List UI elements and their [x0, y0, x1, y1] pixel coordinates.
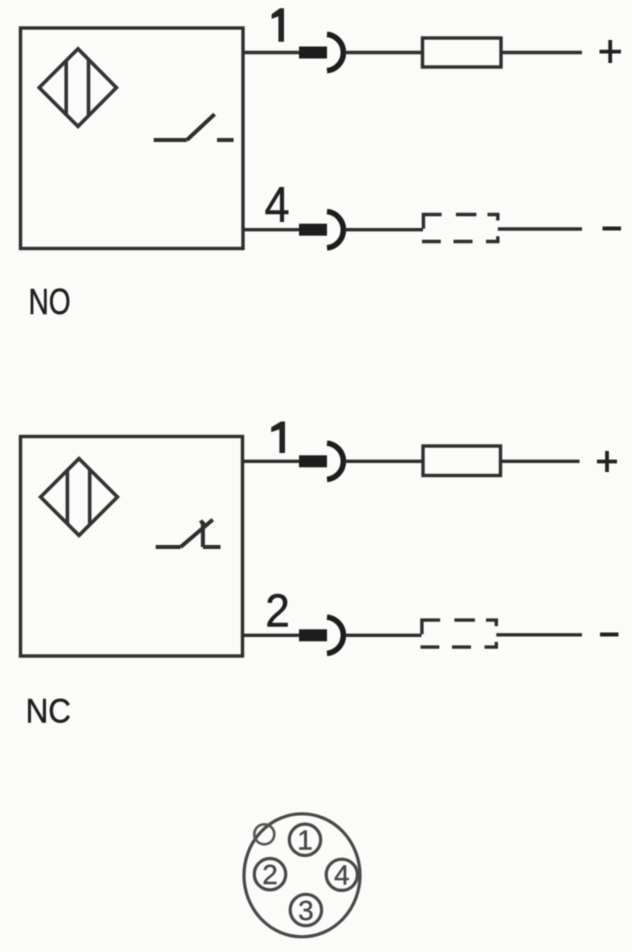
wire box to plug (NC pin1) [243, 460, 302, 463]
keyway notch circle [254, 824, 274, 844]
proximity sensor symbol (diamond, NO box) [39, 49, 116, 127]
connector pin plug (NC pin2) [299, 629, 327, 641]
svg-text:NC: NC [26, 691, 71, 730]
pin 2 circle [254, 859, 285, 890]
pin label 2 (NC) [265, 584, 290, 636]
pin label 4 (NO) [264, 178, 289, 234]
load resistor box (NC pin1) [423, 446, 501, 476]
pin 3 circle [290, 894, 321, 925]
pin 4 digit [334, 860, 350, 891]
wire load to plus (NO pin1) [501, 51, 582, 54]
NO switch contact [154, 114, 234, 140]
wire load to minus (NC pin2) [496, 633, 582, 636]
pin 4 circle [326, 859, 357, 890]
minus terminal (NC) [600, 633, 619, 637]
connector socket arc (NC pin1) [327, 443, 343, 479]
sensor box (NC) [21, 437, 243, 657]
wire load to plus (NC pin1) [501, 460, 580, 463]
connector body circle [244, 814, 360, 937]
sensor box (NO) [21, 28, 244, 249]
minus terminal (NO) [603, 227, 622, 231]
pin label 1 (NO) [272, 8, 284, 42]
wire load to minus (NO pin4) [498, 227, 582, 230]
wire box to plug (NO pin4) [243, 228, 301, 231]
svg-text:1: 1 [297, 825, 313, 856]
connector socket arc (NC pin2) [327, 617, 343, 653]
pin 2 digit [262, 859, 278, 890]
svg-text:NO: NO [29, 281, 71, 321]
svg-text:4: 4 [264, 178, 289, 234]
connector socket arc (NO pin1) [327, 34, 343, 70]
svg-text:4: 4 [334, 860, 350, 891]
pin 3 digit [298, 895, 314, 926]
svg-text:3: 3 [298, 895, 314, 926]
wire socket to load (NC pin1) [345, 460, 424, 463]
wire socket to load (NO pin1) [345, 51, 424, 54]
label NC [26, 691, 71, 730]
dashed load box (NC pin2) [421, 620, 497, 647]
pin 1 circle [289, 824, 320, 855]
load resistor box (NO pin1) [423, 38, 502, 67]
NC switch contact [156, 520, 221, 547]
connector pin plug (NC pin1) [299, 455, 327, 467]
wire box to plug (NO pin1) [243, 51, 301, 54]
wire box to plug (NC pin2) [243, 634, 302, 637]
svg-text:2: 2 [265, 584, 290, 636]
proximity sensor symbol (diamond, NC box) [41, 459, 118, 536]
connector pin plug (NO pin1) [299, 47, 327, 59]
plus terminal (NC) [597, 451, 617, 472]
label NO [29, 281, 71, 321]
pin label 1 (NC) [271, 422, 285, 454]
wire socket to load (NO pin4) [345, 228, 423, 231]
wire socket to load (NC pin2) [345, 634, 422, 637]
plus terminal (NO) [600, 40, 622, 63]
connector socket arc (NO pin4) [327, 212, 343, 248]
dashed load box (NO pin4) [422, 215, 498, 242]
connector pin plug (NO pin4) [299, 224, 327, 236]
svg-text:2: 2 [262, 859, 278, 890]
pin 1 digit [297, 825, 313, 856]
